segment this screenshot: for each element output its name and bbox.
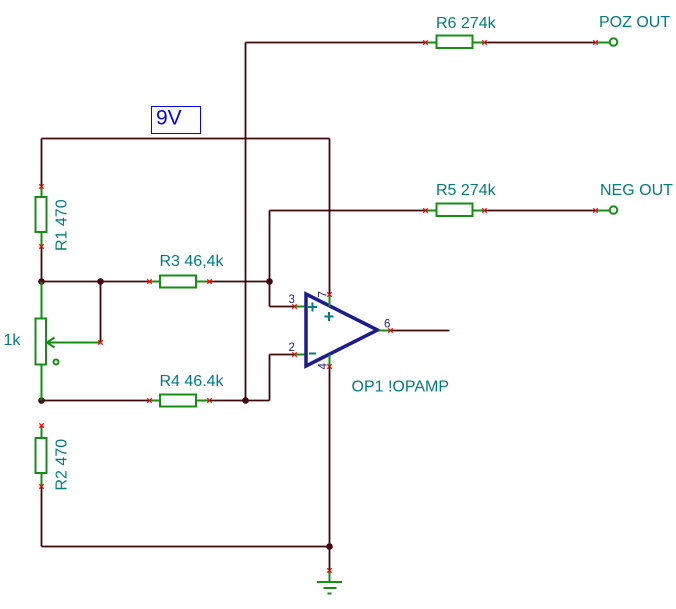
pin stub right [473,210,485,212]
trim marker circle [54,360,59,365]
pin stub right [196,281,211,283]
pin 2 marker [292,352,296,356]
pin 7 marker [327,292,331,296]
pin marker top [39,184,43,188]
pin stub bottom [41,474,43,487]
pin marker [593,208,597,212]
svg-text:1k: 1k [4,332,22,349]
wire op-amp output from pin 6 [391,330,450,332]
pin top [41,282,43,319]
wire wiper tap vertical from R3 row down to pot wiper [100,282,102,343]
body [160,395,196,407]
pin marker left [423,208,427,212]
pin marker right [207,279,211,283]
resistor R5 [423,204,486,217]
pin stub [597,42,610,44]
wire 9V rail horizontal [42,138,330,140]
wire R3 right pin to node B [211,281,270,283]
pin 3 stub [296,306,305,308]
svg-text:R6 274k: R6 274k [436,15,497,32]
svg-text:4: 4 [317,363,329,370]
pin marker bottom [39,484,43,488]
plus mark at positive supply [325,312,334,321]
pin marker [593,40,597,44]
body [36,438,47,473]
wiper pin marker [98,340,102,344]
pad circle [610,38,618,46]
wire node A to R3 left pin [42,281,150,283]
ground [317,568,342,593]
wire from op-amp pin 4 down to bottom rail junction [329,367,331,547]
svg-text:3: 3 [289,294,295,306]
resistor R1 [36,184,47,248]
svg-text:R2 470: R2 470 [54,439,71,491]
wiper arrowhead [47,338,55,343]
pin stub top [41,187,43,197]
svg-text:OP1 !OPAMP: OP1 !OPAMP [352,379,450,396]
pin stub top [41,426,43,438]
wire R4 right pin to corner below pin 2 [211,400,270,402]
pin marker bottom [39,244,43,248]
wire R2 bottom pin down to bottom rail [41,487,43,547]
junction pot bottom / R2 / R4 row [38,397,45,404]
pin 6 marker [388,328,392,332]
pin marker right [207,398,211,402]
svg-text:R4 46.4k: R4 46.4k [160,373,225,390]
wire node B up to R5 row [269,211,271,282]
pin marker right [482,208,486,212]
pad circle [610,206,618,214]
resistor R6 [423,36,486,49]
pin 2 stub [296,354,305,356]
junction node B (R3 / R5 / pin 3) [266,278,273,285]
pin 3 marker [292,304,296,308]
wire R5 row left segment [270,210,426,212]
ground bar long [317,581,342,583]
pin 4 marker [327,364,331,368]
body [36,319,47,365]
pin stub right [473,42,485,44]
body [437,36,473,49]
resistor R4 [147,395,211,407]
wire vertical riser x=245 from top rail down to R4 row junction [245,43,247,401]
wire corner up to op-amp pin 2 row [269,355,271,401]
wire node B down to op-amp pin 3 row [269,282,271,307]
ground bar short [328,593,332,595]
op-amp OP1 [292,292,392,368]
pin stub bottom [41,233,43,247]
junction node A (R1 / pot top / R3 row) [38,278,45,285]
wire R1 bottom pin to node A [41,247,43,282]
svg-text:NEG OUT: NEG OUT [600,182,673,199]
terminal POZ OUT [593,38,617,46]
potentiometer 1k [36,282,103,401]
ground bar middle [324,587,337,589]
body [36,197,47,232]
ground pin marker [327,568,331,572]
wire bottom rail junction down to ground pin [329,547,331,571]
svg-text:6: 6 [384,319,390,331]
svg-text:R1 470: R1 470 [54,199,71,251]
pin marker top [39,423,43,427]
resistor R2 [36,423,47,488]
wire horizontal into op-amp pin 3 [270,306,295,308]
wire R6 right pin to POZ terminal [485,42,596,44]
pin stub left [150,281,161,283]
resistor R3 [147,276,211,288]
pin marker left [147,398,151,402]
pin 7 stub [329,295,331,307]
svg-text:7: 7 [317,291,329,297]
body [437,204,473,217]
wiper shaft [48,342,100,344]
pin marker right [482,40,486,44]
wire horizontal into op-amp pin 2 [270,354,295,356]
plus mark at non-inverting input [308,303,317,312]
pin stub left [150,400,161,402]
svg-text:9V: 9V [156,107,182,130]
supply label 9V [152,107,201,134]
minus mark at inverting input [309,353,316,355]
triangle body [306,294,378,366]
wire vertical x=329 from 9V rail down to op-amp pin 7 [329,139,331,295]
wire R4 row from pot bottom node to R4 left pin [42,400,150,402]
ground pin stub [329,571,331,583]
junction bottom rail / ground [326,543,333,550]
svg-text:R3 46,4k: R3 46,4k [160,253,225,270]
pin stub left [426,210,438,212]
pin marker left [423,40,427,44]
wire R5 right pin to NEG terminal [485,210,596,212]
pin 4 stub [329,355,331,367]
pin bottom [41,365,43,401]
junction wiper tap on R3 row [97,278,104,285]
pin stub [597,210,610,212]
pin stub right [196,400,211,402]
svg-text:POZ OUT: POZ OUT [599,14,670,31]
wire bottom rail horizontal [42,546,330,548]
terminal NEG OUT [593,206,617,214]
pin stub left [426,42,438,44]
svg-text:R5 274k: R5 274k [436,182,497,199]
svg-text:2: 2 [289,342,295,354]
wire left column from 9V rail down to R1 top pin [41,139,43,187]
pin marker left [147,279,151,283]
body [160,276,196,288]
wire top rail from vertical riser to R6 left pin [246,42,426,44]
junction R4 row / vertical riser from top rail [242,397,249,404]
pin 6 stub [379,330,391,332]
